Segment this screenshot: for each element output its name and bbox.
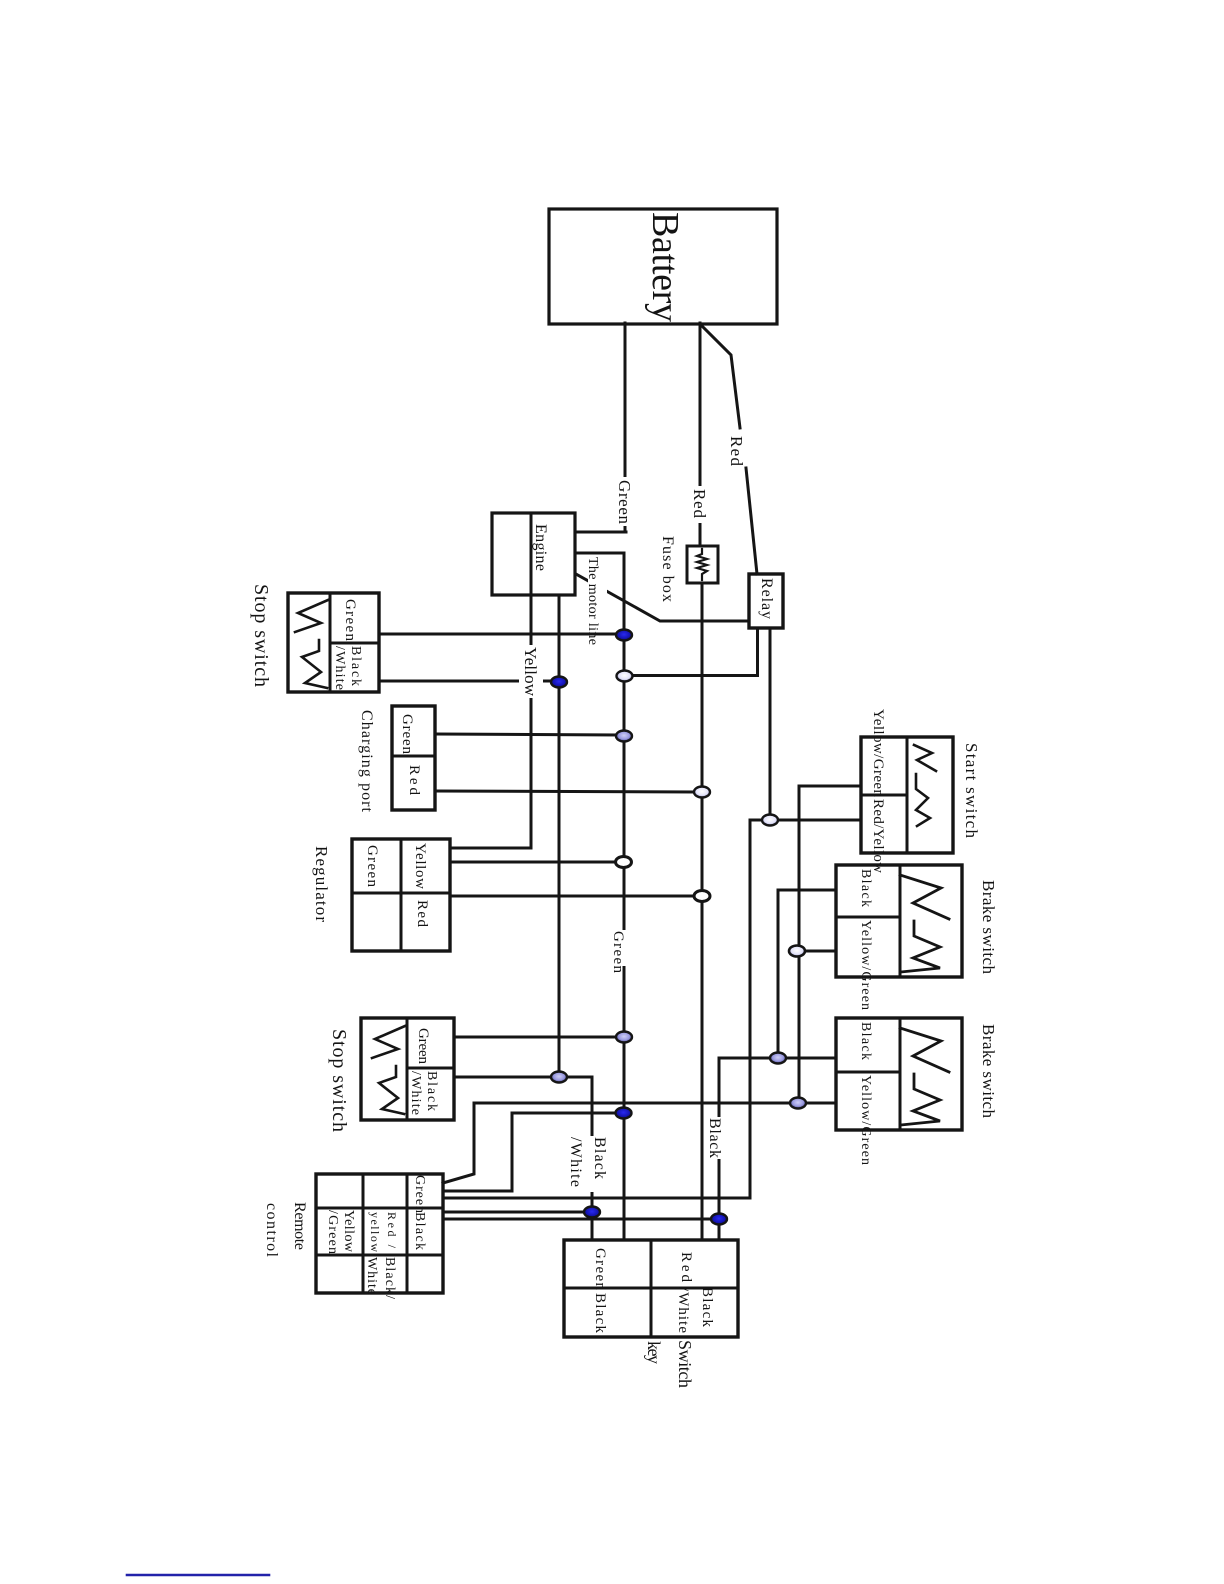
wire green bus vertical <box>623 553 626 1240</box>
svg-text:Red: Red <box>406 765 422 796</box>
wire the motor line diagonal <box>576 574 748 621</box>
node charging red / red bus <box>694 787 710 798</box>
stop switch SW1 <box>288 593 379 692</box>
node stop1 green / green bus <box>616 630 632 641</box>
wire regulator red row <box>450 895 695 898</box>
wire brake1 black <box>778 890 836 1058</box>
blue footer line <box>127 1574 269 1577</box>
svg-text:Black: Black <box>412 1212 427 1250</box>
switch key S1 <box>564 1240 738 1337</box>
label Yellow/Green cell <box>870 709 886 798</box>
wire sw1 black/white to engine line <box>379 680 555 683</box>
wire battery green vertical <box>624 323 627 532</box>
label Red cell charging <box>406 765 422 796</box>
svg-text:Yellow: Yellow <box>341 1210 356 1253</box>
label Black/White cell sw5 <box>408 1071 439 1115</box>
node brake black join <box>770 1053 786 1064</box>
label Green cell sw1 <box>342 599 358 642</box>
svg-text:/White: /White <box>408 1071 423 1115</box>
node stop2 green / green bus <box>616 1032 632 1043</box>
svg-text:Green: Green <box>412 1175 427 1213</box>
wire charging green to bus <box>435 734 619 735</box>
wire battery red vertical to fuse <box>699 323 702 546</box>
fuse box F1 <box>687 546 718 583</box>
svg-text:Relay: Relay <box>758 578 775 619</box>
label Yellow/Green cell brake2 <box>858 1075 873 1165</box>
label Yellow cell regulator <box>412 843 428 889</box>
node y1113 / green bus <box>616 1108 632 1119</box>
label Black/White cell remote <box>364 1257 397 1299</box>
wire remote black row to x719 <box>443 1218 713 1221</box>
svg-text:Stop switch: Stop switch <box>328 1029 350 1132</box>
charging port label <box>358 710 375 813</box>
start switch label <box>962 743 981 839</box>
label Green cell remote <box>412 1175 427 1213</box>
svg-text:Engine: Engine <box>532 524 549 571</box>
charging port P1 <box>392 706 435 810</box>
label Black/White (bus) <box>564 1136 610 1192</box>
svg-text:Yellow/Green: Yellow/Green <box>858 920 873 1010</box>
stop switch SW5 <box>361 1018 454 1120</box>
label Red cell key <box>678 1252 694 1283</box>
brake switch SW3 <box>836 865 962 977</box>
svg-text:Stop switch: Stop switch <box>250 584 272 687</box>
engine label <box>532 524 549 571</box>
label Black cell key <box>592 1293 608 1334</box>
wire relay pin B to start switch and down <box>769 628 772 820</box>
svg-text:White: White <box>364 1257 379 1295</box>
label Green cell key <box>592 1248 608 1291</box>
wire black bus top <box>719 1058 836 1240</box>
label Red (diagonal wire) <box>727 436 746 467</box>
svg-text:/Green: /Green <box>325 1210 340 1254</box>
label Green (battery wire) <box>612 477 638 526</box>
engine M1 <box>492 513 575 595</box>
stop switch 2 label <box>328 1029 350 1132</box>
svg-text:Yellow: Yellow <box>412 843 428 889</box>
brake switch 2 label <box>979 1024 998 1119</box>
label The motor line <box>585 556 607 646</box>
wire charging red to red bus <box>435 791 696 792</box>
battery label <box>644 212 686 322</box>
relay K1 <box>749 574 783 628</box>
svg-text:yellow: yellow <box>368 1212 382 1252</box>
label Green cell regulator <box>364 845 380 888</box>
fuse box label <box>659 536 676 602</box>
node relay / start switch red-yellow <box>762 815 778 826</box>
node y1103 / start yg bus <box>790 1098 806 1109</box>
svg-text:Yellow/Green: Yellow/Green <box>870 709 886 798</box>
svg-text:Green: Green <box>415 1028 431 1065</box>
svg-text:Fuse box: Fuse box <box>659 536 676 602</box>
svg-text:Red: Red <box>727 436 746 467</box>
label Red/Yellow cell <box>870 799 886 873</box>
label Black cell brake2 <box>858 1022 873 1060</box>
svg-text:Black: Black <box>858 1022 873 1060</box>
label Yellow/Green cell brake1 <box>858 920 873 1010</box>
node stop2 bw / engine line <box>551 1072 567 1083</box>
regulator U1 <box>352 839 450 951</box>
svg-text:Charging port: Charging port <box>358 710 375 813</box>
regulator label <box>312 846 331 922</box>
node stop1 bw / engine line <box>551 677 567 688</box>
label Green (green bus) <box>610 930 635 974</box>
label red/yellow cell remote <box>368 1212 399 1252</box>
svg-text:control: control <box>263 1203 280 1258</box>
svg-text:Red: Red <box>678 1252 694 1283</box>
svg-text:Yellow: Yellow <box>521 647 540 697</box>
svg-text:Black: Black <box>591 1137 608 1179</box>
label Black (black bus) <box>706 1117 731 1159</box>
remote control U2 <box>316 1174 443 1293</box>
node remote black / black bus <box>711 1214 727 1225</box>
svg-text:Red /: Red / <box>385 1212 399 1249</box>
label Yellow/Green cell remote <box>325 1210 356 1254</box>
node regulator / green bus <box>616 857 632 868</box>
wire engine to motor-line vertical <box>575 552 624 555</box>
battery B1 <box>549 209 777 324</box>
svg-text:Brake switch: Brake switch <box>979 880 998 975</box>
svg-text:Red/Yellow: Red/Yellow <box>870 799 886 873</box>
svg-text:Brake switch: Brake switch <box>979 1024 998 1119</box>
label Black/White cell sw1 <box>332 646 363 690</box>
svg-text:Black: Black <box>699 1287 715 1328</box>
svg-text:Green: Green <box>592 1248 608 1291</box>
svg-text:Black: Black <box>706 1118 723 1158</box>
node brake1 yellow-green <box>789 946 805 957</box>
wire sw5 black/white bus <box>454 1077 592 1240</box>
wire brake1 yellow/green <box>803 950 836 953</box>
remote control label <box>263 1202 308 1258</box>
svg-text:Black: Black <box>424 1071 439 1111</box>
node remote white / bw bus <box>584 1207 600 1218</box>
wire green to engine <box>575 531 626 534</box>
wire yellow from engine <box>530 595 533 848</box>
svg-text:The motor line: The motor line <box>585 557 600 645</box>
label Black cell remote <box>412 1212 427 1250</box>
wire regulator yellow row <box>450 861 617 864</box>
wire sw5 green to bus <box>454 1036 618 1039</box>
wire battery to relay diagonal <box>700 324 740 428</box>
svg-text:/White: /White <box>332 646 347 690</box>
label Yellow <box>519 645 543 698</box>
label Black/White cell key <box>675 1287 715 1333</box>
wire relay pin A down-left <box>632 628 758 676</box>
stop switch 1 label <box>250 584 272 687</box>
svg-text:Regulator: Regulator <box>312 846 331 922</box>
svg-text:Black: Black <box>858 869 873 907</box>
brake switch SW4 <box>836 1018 962 1130</box>
node relay wire / green bus <box>617 671 633 682</box>
svg-text:Battery: Battery <box>644 212 686 322</box>
brake switch 1 label <box>979 880 998 975</box>
svg-text:Red: Red <box>414 900 430 928</box>
label Black cell brake1 <box>858 869 873 907</box>
svg-text:Yellow/Green: Yellow/Green <box>858 1075 873 1165</box>
start switch SW2 <box>861 737 953 853</box>
svg-text:Green: Green <box>610 931 626 974</box>
wire start yellow/green down bus <box>799 786 861 1103</box>
svg-text:Black/: Black/ <box>382 1257 397 1299</box>
label Green cell sw5 <box>415 1028 431 1065</box>
relay label <box>758 578 775 619</box>
wire red bus below fuse <box>701 583 704 1240</box>
svg-text:Switch: Switch <box>675 1340 695 1388</box>
svg-text:key: key <box>644 1341 664 1364</box>
svg-text:Start switch: Start switch <box>962 743 981 839</box>
svg-text:Green: Green <box>615 480 634 525</box>
svg-text:/White: /White <box>567 1137 584 1187</box>
wire y1103 bus remote-green to brake2 <box>443 1103 836 1183</box>
wire sw1 green to green bus <box>379 633 618 636</box>
svg-text:Green: Green <box>399 714 415 755</box>
label Red cell regulator <box>414 900 430 928</box>
wire y1113 remote to green bus <box>443 1113 617 1191</box>
svg-text:Black: Black <box>348 646 363 686</box>
node charging green / green bus <box>616 731 632 742</box>
svg-text:Red: Red <box>690 489 709 519</box>
wire engine bottom pin vertical <box>558 595 561 1077</box>
svg-text:Remote: Remote <box>291 1202 308 1250</box>
svg-text:/White: /White <box>675 1287 691 1333</box>
switch key label <box>644 1340 695 1388</box>
svg-text:Green: Green <box>364 845 380 888</box>
wire remote white row to x592 <box>443 1211 586 1214</box>
svg-text:Black: Black <box>592 1293 608 1334</box>
label Red (battery wire) <box>688 486 713 523</box>
label Green cell charging <box>399 714 415 755</box>
node regulator red / red bus <box>694 891 710 902</box>
svg-text:Green: Green <box>342 599 358 642</box>
